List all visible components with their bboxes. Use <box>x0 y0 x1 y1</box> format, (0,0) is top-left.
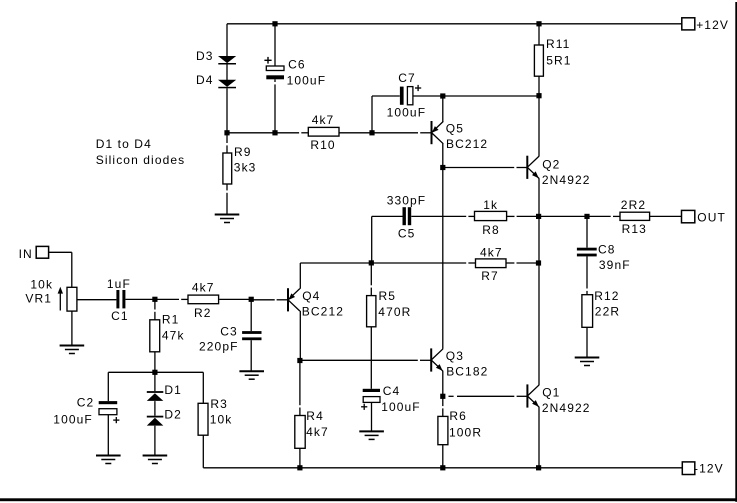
junction C6 bias node <box>272 130 277 135</box>
wire C3 top lead <box>250 299 252 331</box>
capacitor C7 <box>400 85 421 105</box>
resistor R2 <box>188 295 219 304</box>
svg-text:100uF: 100uF <box>287 74 327 88</box>
wire R9 top lead <box>226 133 228 153</box>
label C7 <box>398 71 416 85</box>
wire C6 bottom lead <box>274 79 276 133</box>
label BC182 (Q3 type) <box>446 365 488 379</box>
wire R8 to output node <box>507 215 611 217</box>
label C6 <box>288 57 306 71</box>
label 47k (R1 value) <box>162 328 185 342</box>
label R3 <box>210 397 228 411</box>
resistor R1 <box>150 320 160 352</box>
label Q2 <box>542 157 560 171</box>
terminal +12V <box>682 18 695 30</box>
svg-text:C8: C8 <box>598 242 616 256</box>
svg-text:R11: R11 <box>546 37 570 51</box>
ground D2 <box>143 456 168 464</box>
svg-text:C4: C4 <box>383 384 401 398</box>
diode D1 <box>147 391 164 401</box>
svg-text:R1: R1 <box>162 313 180 327</box>
wire Q4 emitter rail to R7 <box>300 263 475 289</box>
label Q3 <box>446 349 464 363</box>
label R6 <box>449 409 467 423</box>
label 4k7 (R2 value) <box>192 281 215 295</box>
wire Q4 collector lead <box>299 311 301 361</box>
wire R4 bottom lead <box>299 448 301 468</box>
wire C2 top lead <box>107 372 109 401</box>
label 1k (R8 value) <box>483 198 498 212</box>
label BC212 (Q5 type) <box>446 137 488 151</box>
wire Q1 emitter lead <box>538 407 540 468</box>
label 4k7 (R7 value) <box>480 245 503 259</box>
label 10k (R3 value) <box>210 413 233 427</box>
label R11 <box>546 37 570 51</box>
wire C8 to R12 <box>586 256 588 294</box>
svg-text:10k: 10k <box>210 413 233 427</box>
label C3 <box>220 324 238 338</box>
svg-text:2R2: 2R2 <box>621 198 646 212</box>
label 2N4922 (Q1 type) <box>542 401 591 415</box>
wire R11 top lead <box>538 24 540 45</box>
svg-text:D3: D3 <box>196 49 214 63</box>
wire R3 to -12V rail <box>202 435 204 468</box>
junction R7-Q1 collector node <box>536 260 541 265</box>
label D1 <box>164 383 182 397</box>
label VR1 <box>25 291 52 305</box>
label 3k3 (R9 value) <box>234 161 257 175</box>
label C2 <box>77 395 95 409</box>
junction Q5 emitter node <box>440 93 445 98</box>
wire C7 left lead <box>372 96 400 133</box>
svg-text:C3: C3 <box>220 324 238 338</box>
svg-text:4k7: 4k7 <box>480 245 503 259</box>
svg-text:D2: D2 <box>164 407 182 421</box>
label Q1 <box>542 386 560 400</box>
wire R11 bottom to Q2 collector <box>538 76 540 156</box>
wire C2 bottom lead <box>107 415 109 456</box>
label IN <box>19 247 33 261</box>
svg-text:22R: 22R <box>595 305 620 319</box>
wire D1-D2 <box>154 401 156 416</box>
svg-text:R7: R7 <box>481 269 499 283</box>
svg-text:-12V: -12V <box>694 461 724 475</box>
junction C6 top rail <box>272 21 277 26</box>
label R5 <box>379 289 397 303</box>
svg-text:1k: 1k <box>483 198 498 212</box>
label R13 <box>622 222 647 236</box>
svg-text:Q2: Q2 <box>542 157 560 171</box>
label D3 <box>196 49 214 63</box>
resistor R8 <box>475 211 507 220</box>
label 4k7 (R4 value) <box>306 425 329 439</box>
svg-text:100uF: 100uF <box>381 400 421 414</box>
terminal IN <box>36 246 48 258</box>
wire Q2 emitter lead <box>538 178 540 216</box>
wire D4 to bias node <box>226 88 228 133</box>
svg-text:330pF: 330pF <box>387 194 427 208</box>
ground C4 <box>359 431 384 439</box>
label 39nF (C8 value) <box>599 258 631 272</box>
svg-text:Q5: Q5 <box>446 121 464 135</box>
junction R6 -12V rail <box>440 465 445 470</box>
terminal OUT <box>682 210 695 222</box>
ground C3 <box>239 371 264 379</box>
label 100uF (C4 value) <box>381 400 421 414</box>
svg-text:D1 to D4: D1 to D4 <box>96 137 152 151</box>
potentiometer VR1 <box>58 287 77 311</box>
wire R13 to OUT terminal <box>650 215 682 217</box>
svg-text:Q4: Q4 <box>302 289 320 303</box>
wire D2 bottom lead <box>154 426 156 456</box>
resistor R7 <box>476 259 507 268</box>
svg-text:R13: R13 <box>622 222 647 236</box>
wire Q5 collector to Q2 base <box>443 167 528 169</box>
junction R11 top rail <box>536 21 541 26</box>
resistor R6 <box>438 416 448 444</box>
label R7 <box>481 269 499 283</box>
capacitor C3 <box>242 331 261 340</box>
resistor R9 <box>223 153 232 184</box>
diode D2 <box>147 416 164 426</box>
wire R12 bottom lead <box>586 327 588 357</box>
svg-text:R9: R9 <box>234 145 252 159</box>
junction Q1 emitter -12V rail <box>536 465 541 470</box>
wire R7 right lead <box>506 262 539 264</box>
svg-text:R6: R6 <box>449 409 467 423</box>
label BC212 (Q4 type) <box>302 304 344 318</box>
wire R3 top lead <box>202 372 204 403</box>
label Q4 <box>302 289 320 303</box>
wire Q3 emitter to Q1 base <box>449 395 528 397</box>
svg-text:Q3: Q3 <box>446 349 464 363</box>
wire C7 right to R11 node <box>413 95 539 97</box>
resistor R3 <box>198 403 208 435</box>
resistor R4 <box>295 416 305 449</box>
transistor Q1 <box>527 384 539 407</box>
ground R9 <box>215 215 240 223</box>
label R2 <box>194 306 212 320</box>
label 220pF (C3 value) <box>199 340 239 354</box>
label D1 to D4 note line1 <box>96 137 152 151</box>
svg-text:2N4922: 2N4922 <box>542 173 591 187</box>
wire C8 top lead <box>586 216 588 247</box>
transistor Q5 <box>432 121 444 144</box>
svg-text:470R: 470R <box>378 305 411 319</box>
wire C6 top lead <box>274 24 276 66</box>
svg-text:Q1: Q1 <box>542 386 560 400</box>
wire R1 top lead <box>154 299 156 320</box>
wire C5 left lead <box>372 216 403 263</box>
label C5 <box>398 226 416 240</box>
wire Q4 base <box>251 299 288 301</box>
junction D4-R9 node <box>224 130 229 135</box>
wire Q1 collector lead <box>538 216 540 385</box>
svg-text:C1: C1 <box>111 309 129 323</box>
wire R6 bottom lead <box>442 445 444 468</box>
capacitor C5 <box>403 207 412 225</box>
label 100uF (C7 value) <box>387 105 427 119</box>
junction R11 bottom node <box>536 93 541 98</box>
svg-text:220pF: 220pF <box>199 340 239 354</box>
label 100uF (C2 value) <box>53 412 93 426</box>
junction Q5 collector node <box>440 165 445 170</box>
capacitor C6 <box>264 57 284 79</box>
svg-text:C7: C7 <box>398 71 416 85</box>
transistor Q3 <box>431 348 443 371</box>
svg-text:BC182: BC182 <box>446 365 488 379</box>
label +12V <box>696 18 729 32</box>
transistor Q4 <box>288 288 300 311</box>
svg-text:39nF: 39nF <box>599 258 631 272</box>
svg-text:R10: R10 <box>310 138 335 152</box>
ground R12 <box>575 358 600 366</box>
svg-text:100uF: 100uF <box>387 105 427 119</box>
wire bias node row <box>108 371 203 373</box>
label 4k7 (R10 value) <box>312 113 335 127</box>
label -12V <box>694 461 724 475</box>
svg-text:47k: 47k <box>162 328 185 342</box>
svg-text:100uF: 100uF <box>53 412 93 426</box>
label 470R (R5 value) <box>378 305 411 319</box>
svg-text:R12: R12 <box>594 289 619 303</box>
label 1uF (C1 value) <box>107 277 131 291</box>
label Q5 <box>446 121 464 135</box>
svg-text:1uF: 1uF <box>107 277 131 291</box>
terminal -12V <box>682 462 695 475</box>
junction C8 output node <box>584 214 589 219</box>
wire VR1 bottom lead <box>71 311 73 345</box>
svg-text:100R: 100R <box>449 425 482 439</box>
svg-text:D1: D1 <box>164 383 182 397</box>
wire C1 to R1 node <box>125 298 188 300</box>
wire D1 top lead <box>154 372 156 391</box>
wire R6 top lead <box>442 396 444 416</box>
svg-text:4k7: 4k7 <box>312 113 335 127</box>
wire Q5 emitter lead <box>442 96 444 122</box>
wire R2 to C3 node <box>219 298 251 300</box>
wire VR1 wiper to C1 <box>77 299 117 301</box>
junction Q4 collector node <box>297 358 302 363</box>
svg-text:C5: C5 <box>398 226 416 240</box>
label C4 <box>383 384 401 398</box>
wire +12V rail <box>227 23 682 25</box>
junction C3 top node <box>249 297 254 302</box>
diode D4 <box>218 80 236 89</box>
junction Q3 emitter node <box>440 394 445 399</box>
wire D3 anode from rail <box>226 24 228 56</box>
label R4 <box>306 409 324 423</box>
label 330pF (C5 value) <box>387 194 427 208</box>
junction R1-D1-C2 node <box>152 370 157 375</box>
svg-text:5R1: 5R1 <box>546 53 571 67</box>
junction R4 -12V rail <box>297 465 302 470</box>
wire R5 top lead <box>370 263 372 296</box>
label C1 <box>111 309 129 323</box>
label D2 <box>164 407 182 421</box>
label Silicon diodes note line2 <box>96 153 185 167</box>
wire Q5-Q3 collector link <box>442 144 444 349</box>
label C8 <box>598 242 616 256</box>
svg-text:3k3: 3k3 <box>234 161 257 175</box>
svg-text:R4: R4 <box>306 409 324 423</box>
label R9 <box>234 145 252 159</box>
svg-text:10k: 10k <box>30 277 53 291</box>
wire bias row to R10 <box>227 132 308 134</box>
wire C4 bottom lead <box>371 402 373 431</box>
label 2N4922 (Q2 type) <box>542 173 591 187</box>
resistor R13 <box>620 212 650 220</box>
label 5R1 (R11 value) <box>546 53 571 67</box>
svg-text:OUT: OUT <box>697 211 726 225</box>
ground C2 <box>96 456 121 464</box>
wire R5 to C4 <box>370 327 372 389</box>
label 22R (R12 value) <box>595 305 620 319</box>
label 100R (R6 value) <box>449 425 482 439</box>
diode D3 <box>218 56 236 65</box>
capacitor C2 <box>99 401 120 423</box>
junction R1 top node <box>152 297 157 302</box>
wire C3 bottom lead <box>250 340 252 371</box>
wire R10 to C7 node <box>339 132 372 134</box>
wire -12V rail <box>203 467 682 469</box>
wire R4 top lead <box>299 361 301 416</box>
svg-text:Silicon diodes: Silicon diodes <box>96 153 185 167</box>
ground VR1 <box>60 346 85 354</box>
resistor R11 <box>534 45 543 76</box>
junction Q2 emitter output node <box>536 214 541 219</box>
wire Q5 base <box>372 132 432 134</box>
svg-text:4k7: 4k7 <box>192 281 215 295</box>
svg-text:R2: R2 <box>194 306 212 320</box>
svg-text:C2: C2 <box>77 395 95 409</box>
junction C7-R10-Q5 node <box>369 130 374 135</box>
svg-text:BC212: BC212 <box>302 304 344 318</box>
label R12 <box>594 289 619 303</box>
svg-text:C6: C6 <box>288 57 306 71</box>
label 2R2 (R13 value) <box>621 198 646 212</box>
svg-text:+12V: +12V <box>696 18 729 32</box>
svg-text:R3: R3 <box>210 397 228 411</box>
wire R9 bottom lead <box>226 184 228 215</box>
wire D3-D4 <box>226 64 228 80</box>
junction R5 top node <box>369 260 374 265</box>
svg-text:BC212: BC212 <box>446 137 488 151</box>
resistor R5 <box>367 296 376 327</box>
wire Q3 emitter lead <box>442 371 444 396</box>
wire output to R13 <box>613 215 620 217</box>
capacitor C4 <box>361 389 380 410</box>
svg-text:4k7: 4k7 <box>306 425 329 439</box>
label 10k (VR1 value) <box>30 277 53 291</box>
resistor R10 <box>308 127 339 136</box>
svg-text:D4: D4 <box>196 73 214 87</box>
label OUT <box>697 211 726 225</box>
svg-text:R8: R8 <box>482 223 500 237</box>
svg-text:IN: IN <box>19 247 33 261</box>
wire C5 to R8 <box>411 215 474 217</box>
wire R1 bottom lead <box>154 352 156 373</box>
svg-text:R5: R5 <box>379 289 397 303</box>
resistor R12 <box>582 295 593 328</box>
transistor Q2 <box>527 156 539 179</box>
capacitor C1 <box>116 290 125 308</box>
label 100uF (C6 value) <box>287 74 327 88</box>
label R8 <box>482 223 500 237</box>
svg-text:VR1: VR1 <box>25 291 52 305</box>
label R10 <box>310 138 335 152</box>
wire Q4 collector to Q3 base <box>300 359 431 361</box>
label R1 <box>162 313 180 327</box>
label D4 <box>196 73 214 87</box>
wire IN to VR1 <box>49 252 72 287</box>
capacitor C8 <box>577 248 597 257</box>
svg-text:2N4922: 2N4922 <box>542 401 591 415</box>
